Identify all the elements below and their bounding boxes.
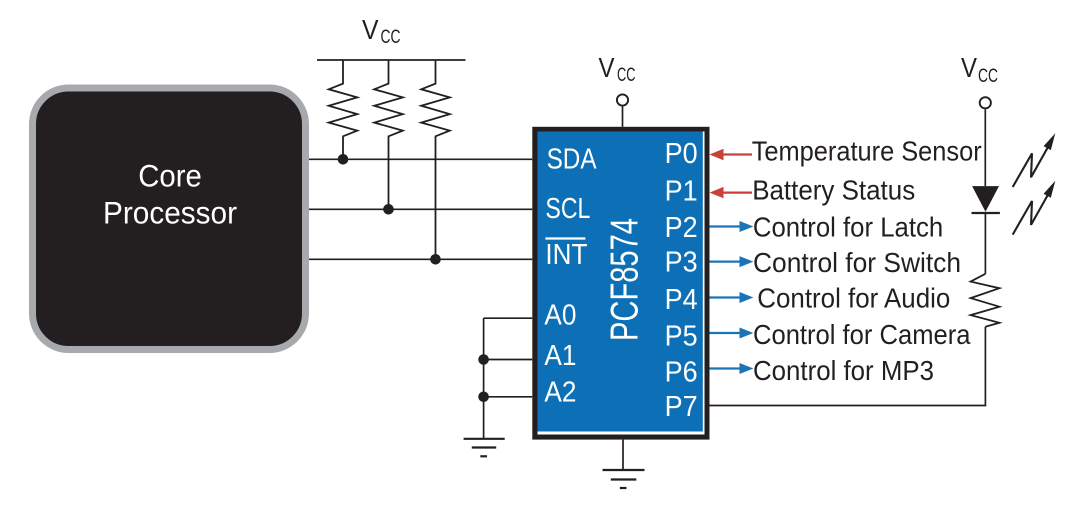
wire INT net [309,258,532,260]
wire IC to ground [622,440,624,470]
svg-text:Control for MP3: Control for MP3 [753,355,934,386]
svg-text:SCL: SCL [545,193,590,225]
core processor U2 box [33,88,306,350]
junction A1 [478,354,489,365]
svg-text:V: V [362,14,379,45]
LED D1 [972,186,999,212]
svg-text:INT: INT [545,239,587,271]
svg-text:CC: CC [978,65,998,87]
LED emission arrow 1 [1013,147,1048,187]
svg-text:Control for Camera: Control for Camera [753,319,971,350]
arrow P6 output (blue) [710,363,754,374]
svg-text:P1: P1 [665,176,698,208]
svg-text:A1: A1 [544,340,576,372]
junction INT/R3 [430,254,441,265]
wire A-pins to ground [483,318,485,439]
junction A2 [478,392,489,403]
ground (IC Vss) [603,470,645,488]
Vcc terminal above IC [599,52,636,86]
svg-text:Battery Status: Battery Status [752,174,915,205]
svg-text:SDA: SDA [547,143,597,175]
svg-text:Control for Latch: Control for Latch [753,211,943,242]
resistor R4 (LED series) [971,274,1000,327]
svg-text:Control for Switch: Control for Switch [753,247,961,278]
svg-text:PCF8574: PCF8574 [603,218,646,341]
svg-text:V: V [599,52,615,83]
wire A2 stub [484,396,533,398]
wire Vcc to LED anode [984,109,986,186]
svg-text:P5: P5 [665,321,698,353]
svg-text:V: V [961,52,977,83]
svg-text:P4: P4 [665,284,698,316]
wire SCL net [309,208,532,210]
arrow P1 input (red) [710,187,753,198]
wire A1 stub [484,359,533,361]
arrow P0 input (red) [710,149,753,160]
junction SCL/R2 [383,204,394,215]
svg-text:P2: P2 [665,212,698,244]
svg-text:P0: P0 [665,138,698,170]
junction SDA/R1 [338,154,349,165]
IC U1 PCF8574 body frame [532,127,709,440]
svg-text:CC: CC [381,26,401,48]
svg-text:P6: P6 [665,356,698,388]
arrow P4 output (blue) [710,292,754,303]
arrow P5 output (blue) [710,328,754,339]
wire A0 stub [484,317,533,319]
resistor R3 (INT pull-up) [421,60,450,259]
LED emission arrow 2 [1013,195,1048,235]
Vcc terminal for LED branch [961,52,998,87]
svg-text:Processor: Processor [103,194,237,230]
ground (address pins) [464,439,505,457]
resistor R2 (SCL pull-up) [374,60,403,209]
wire SDA net [309,158,532,160]
svg-text:Control for Audio: Control for Audio [757,282,950,313]
Vcc label (pull-up rail) [362,14,401,48]
arrow P2 output (blue) [710,221,754,232]
svg-text:CC: CC [617,64,636,86]
svg-text:P3: P3 [665,247,698,279]
arrow P3 output (blue) [710,256,754,267]
Vcc rail wire [317,59,466,61]
svg-text:Temperature Sensor: Temperature Sensor [752,136,982,167]
svg-text:Core: Core [138,158,202,194]
wire resistor to P7 [710,327,986,406]
svg-text:A0: A0 [544,300,576,332]
svg-text:A2: A2 [544,376,576,408]
resistor R1 (SDA pull-up) [329,60,358,159]
wire LED cathode to resistor [984,213,986,274]
wire Vcc to IC [622,106,624,127]
svg-text:P7: P7 [665,391,698,423]
